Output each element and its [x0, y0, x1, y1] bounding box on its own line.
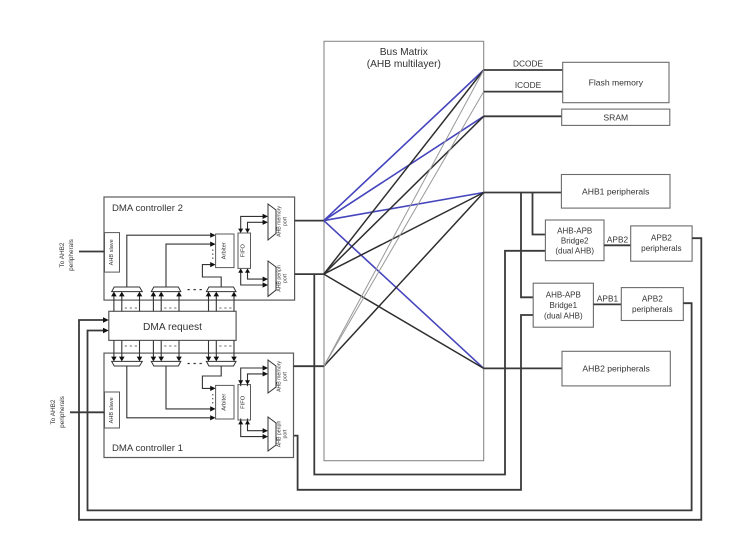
block AHB-APB Bridge1 [533, 283, 593, 327]
arrowhead arbiter input 2 [210, 242, 215, 247]
wire DMA request loop from APB2 peripherals (upper) [79, 238, 701, 520]
matrix diagonal: DMA1 memory port to DCODE (gray) [324, 70, 484, 366]
svg-text:peripherals: peripherals [641, 244, 682, 253]
dotted continuation DMA2 arbiter inputs [212, 250, 214, 260]
wire APB1 bus bridge1 to APB2 peripherals (lower) [593, 303, 621, 305]
bus matrix box U_MATRIX [324, 41, 484, 460]
svg-text:To AHB2: To AHB2 [59, 242, 66, 267]
svg-text:DMA controller 2: DMA controller 2 [112, 203, 183, 214]
matrix diagonal: DMA2 peripheral port to AHB2 (black) [324, 274, 484, 368]
wire APB2 bus bridge2 to APB2 peripherals [604, 244, 631, 246]
wire SRAM bus [484, 115, 562, 117]
request lines group 3 down [209, 340, 235, 359]
request lines group 2 up [153, 294, 179, 312]
svg-text:AHB-APB: AHB-APB [557, 227, 592, 236]
svg-text:(dual AHB): (dual AHB) [544, 312, 583, 321]
wire to DMA2 AHB slave [79, 251, 105, 253]
svg-text:APB2: APB2 [651, 234, 672, 243]
svg-text:DMA controller 1: DMA controller 1 [112, 443, 183, 454]
wire to DMA1 AHB slave [70, 411, 105, 413]
block DMA1 arbiter [216, 385, 234, 419]
svg-text:port: port [283, 273, 289, 282]
svg-text:APB1: APB1 [597, 293, 619, 303]
dotted continuation DMA1 arbiter inputs [212, 394, 214, 404]
svg-text:SRAM: SRAM [603, 112, 628, 122]
svg-text:AHB-APB: AHB-APB [546, 291, 581, 300]
svg-text:FIFO: FIFO [241, 395, 247, 409]
request lines group 2 down [153, 340, 179, 359]
svg-text:port: port [283, 429, 289, 438]
block DMA2 AHB slave [105, 233, 120, 273]
DMA2 AHB peripheral port mux [268, 261, 289, 296]
wire DMA1 mux2 to arbiter [166, 366, 213, 409]
arrowhead into DMA request (lower) [103, 328, 109, 334]
matrix diagonal: DMA2 memory port to SRAM (blue) [324, 116, 484, 220]
dots between DMA2 mux 2 and 3 [188, 289, 202, 290]
DMA1 stream mux 1 [112, 361, 143, 366]
svg-text:DMA request: DMA request [143, 322, 202, 333]
arrowhead arbiter input 1 [210, 233, 215, 238]
svg-text:Bridge2: Bridge2 [561, 237, 589, 246]
arrowhead DMA1 arbiter input 3 [210, 386, 215, 391]
svg-text:APB2: APB2 [607, 234, 629, 244]
wire AHB1 to bridge2 [533, 193, 546, 235]
wire DMA request loop from APB2 peripherals (lower) [88, 303, 692, 510]
wire DMA2 FIFO to peripheral port a [241, 270, 266, 285]
arrowheads group 1 into DMA2 mux [111, 292, 142, 297]
wire DMA1 memory port output to matrix [294, 365, 324, 367]
svg-text:To AHB2: To AHB2 [50, 399, 57, 424]
dashed continuation marks below DMA request [125, 345, 232, 347]
matrix diagonal: DMA2 peripheral port to SRAM (black) [324, 116, 484, 274]
arrowheads group 2 into DMA2 mux [151, 292, 182, 297]
block DMA1 FIFO [238, 385, 251, 420]
svg-text:AHB2 peripherals: AHB2 peripherals [582, 364, 649, 374]
block APB2 peripherals (lower) [621, 288, 683, 321]
DMA1 stream mux 2 [151, 361, 181, 366]
block DMA controller 1 [104, 353, 294, 457]
wire DMA1 FIFO to peripheral port a [241, 419, 266, 437]
request lines group 3 up [209, 294, 235, 312]
block APB2 peripherals (upper) [631, 226, 692, 261]
DMA2 stream mux 3 [206, 287, 236, 292]
svg-text:APB2: APB2 [642, 294, 663, 303]
block AHB-APB Bridge2 [545, 220, 604, 261]
matrix diagonal: DMA2 peripheral port to DCODE (black) [324, 70, 484, 274]
svg-text:AHB slave: AHB slave [109, 239, 115, 265]
svg-text:Arbiter: Arbiter [221, 242, 227, 259]
svg-text:Flash memory: Flash memory [589, 78, 644, 88]
svg-text:peripherals: peripherals [68, 239, 75, 271]
arrowhead DMA1 arbiter input 2 [210, 406, 215, 411]
svg-text:peripherals: peripherals [59, 396, 66, 428]
wire DMA1 mux3 to arbiter [202, 366, 221, 388]
wire DMA2 mux1 to arbiter [127, 235, 213, 287]
arrowhead arbiter input 3 [210, 262, 215, 267]
arrowheads group 1 into DMA1 mux [111, 357, 142, 362]
svg-text:FIFO: FIFO [241, 244, 247, 258]
svg-text:AHB slave: AHB slave [109, 397, 115, 423]
label To AHB2 peripherals (bottom) [50, 396, 66, 428]
wire DMA1 peripheral port to bridge1 (dual AHB) [294, 315, 534, 490]
block Flash memory [563, 62, 669, 102]
svg-text:(dual AHB): (dual AHB) [555, 247, 594, 256]
svg-text:ICODE: ICODE [515, 80, 542, 90]
wire DMA1 FIFO to memory port b [248, 374, 266, 386]
matrix diagonal: DMA2 peripheral port to AHB1 (black) [324, 193, 484, 275]
DMA2 AHB memory port mux [268, 204, 289, 240]
matrix diagonal: DMA2 memory port to DCODE (blue) [324, 70, 484, 221]
wire DMA2 peripheral port to bridge2 (dual AHB) [314, 251, 545, 475]
wire DMA2 peripheral port output to matrix [295, 273, 324, 275]
block AHB2 peripherals [562, 351, 670, 386]
block DMA controller 2 [104, 197, 295, 300]
wire DMA2 mux2 to arbiter [166, 244, 213, 287]
arrowheads group 3 into DMA1 mux [206, 357, 237, 362]
DMA1 AHB memory port mux [268, 360, 289, 393]
svg-text:Bus Matrix: Bus Matrix [380, 47, 428, 58]
DMA1 AHB peripheral port mux [268, 417, 289, 451]
matrix diagonal: DMA1 memory port to ICODE (gray) [324, 92, 484, 367]
wire DMA2 mux3 to arbiter [202, 265, 221, 287]
svg-text:DCODE: DCODE [513, 59, 543, 69]
DMA2 stream mux 2 [151, 287, 181, 292]
dashed continuation marks above DMA request [125, 307, 232, 309]
wire DCODE bus [484, 69, 563, 71]
wire AHB2 bus [484, 367, 562, 369]
matrix diagonal: DMA2 memory port to AHB1 (blue) [324, 193, 484, 221]
arrowhead into DMA request (upper) [103, 317, 109, 323]
block SRAM [562, 109, 670, 125]
svg-text:Arbiter: Arbiter [221, 394, 227, 411]
wire DMA1 mux1 to arbiter [127, 366, 213, 418]
svg-text:port: port [283, 216, 289, 225]
wire DMA1 FIFO to peripheral port b [248, 419, 266, 431]
request lines group 1 up [114, 294, 140, 312]
wire AHB1 bus [484, 192, 562, 194]
wire DMA1 FIFO to memory port a [241, 368, 266, 386]
block DMA request [109, 311, 236, 340]
matrix diagonal: DMA1 memory port to AHB1 (black) [324, 193, 484, 367]
request lines group 1 down [114, 340, 140, 359]
wire DMA2 FIFO to memory port a [241, 216, 266, 231]
wire DMA2 FIFO to memory port b [248, 222, 266, 231]
svg-text:(AHB multilayer): (AHB multilayer) [367, 59, 441, 70]
svg-text:port: port [283, 371, 289, 380]
arrowheads group 3 into DMA2 mux [206, 292, 237, 297]
DMA1 stream mux 3 [206, 361, 236, 366]
wire DMA2 memory port output to matrix [295, 220, 324, 222]
block DMA2 FIFO [238, 233, 251, 268]
svg-text:peripherals: peripherals [632, 305, 673, 314]
arrowhead DMA1 arbiter input 1 [210, 415, 215, 420]
block DMA1 AHB slave [105, 392, 120, 428]
block AHB1 peripherals [561, 175, 670, 209]
svg-text:Bridge1: Bridge1 [550, 301, 578, 310]
block DMA2 arbiter [216, 234, 234, 268]
dots between DMA1 mux 2 and 3 [188, 363, 202, 364]
wire ICODE bus [484, 91, 563, 93]
arrowheads group 2 into DMA1 mux [151, 357, 182, 362]
matrix diagonal: DMA2 memory port to AHB2 (blue) [324, 221, 484, 369]
DMA2 stream mux 1 [112, 287, 143, 292]
wire DMA2 FIFO to peripheral port b [248, 270, 266, 279]
label To AHB2 peripherals (top) [59, 239, 75, 271]
svg-text:AHB1 peripherals: AHB1 peripherals [582, 186, 649, 196]
wire AHB1 to bridge1 [521, 193, 533, 298]
